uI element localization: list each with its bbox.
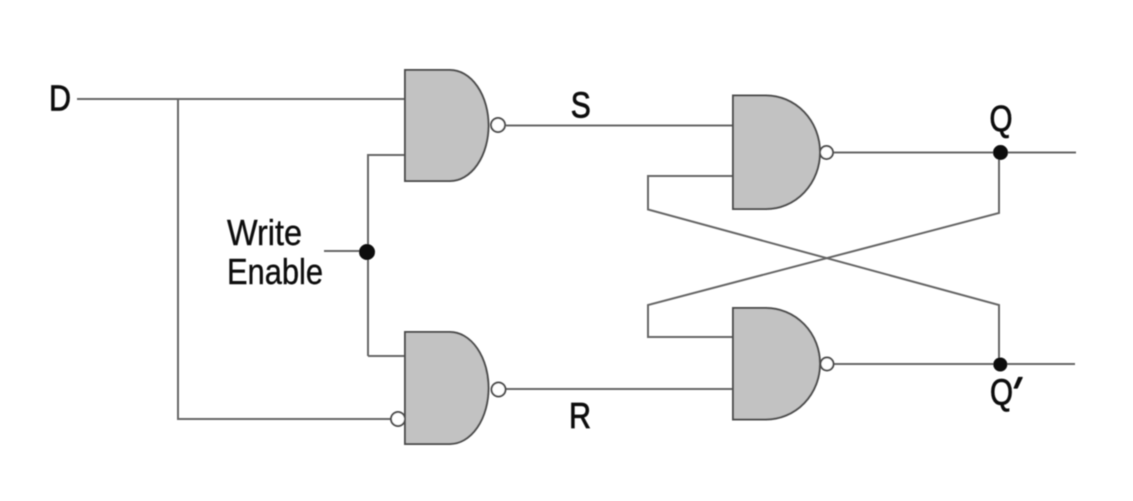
svg-text:Write: Write: [227, 212, 302, 253]
svg-text:Q: Q: [990, 372, 1013, 413]
svg-text:S: S: [571, 84, 591, 125]
svg-text:Q: Q: [990, 98, 1013, 139]
svg-text:D: D: [49, 78, 71, 119]
svg-text:R: R: [569, 395, 591, 436]
svg-text:Enable: Enable: [227, 251, 323, 292]
